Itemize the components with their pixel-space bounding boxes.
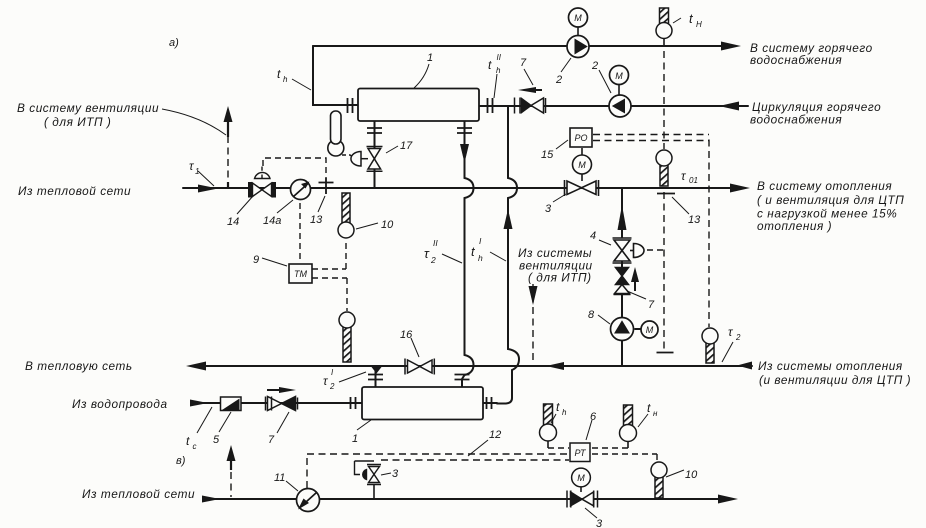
arrow: vent tap up — [224, 106, 233, 122]
wire: dashed PT to tn sensor — [592, 447, 628, 449]
svg-text:а): а) — [169, 37, 179, 49]
arrow: down on vent system dashed inlet — [529, 286, 538, 305]
svg-text:М: М — [615, 71, 623, 81]
wire: dashed link valve3 bracket to PT — [381, 459, 569, 461]
svg-text:М: М — [574, 13, 582, 23]
svg-text:8: 8 — [588, 309, 595, 321]
leader: 14a to flow sensor — [277, 200, 293, 213]
valve 17 with actuator — [351, 147, 383, 172]
orifice 13 on supply line — [319, 178, 334, 194]
leader: tau2-II to riser — [442, 254, 462, 263]
valve 3 small with actuator and bracket bottom scheme — [355, 461, 382, 485]
svg-text:В тепловую сеть: В тепловую сеть — [25, 359, 133, 373]
svg-text:2: 2 — [329, 382, 335, 391]
svg-text:РТ: РТ — [575, 448, 587, 458]
wire: dashed vent system inlet with arrow — [532, 284, 534, 362]
arrow: flow mark above check valve 7 circulation — [518, 87, 536, 93]
leader: th-I to riser — [490, 252, 506, 261]
thermometer sensor on return line for heat meter — [339, 312, 355, 362]
leader: 10 bottom to thermometer — [666, 470, 684, 477]
arrow: heating supply start right — [198, 185, 218, 193]
leader: tau1 to supply line — [198, 171, 214, 186]
arrow: down on riser tau2-II — [460, 144, 469, 163]
svg-text:( для ИТП ): ( для ИТП ) — [44, 115, 111, 129]
wire: dashed impulse PO to tau2 sensor — [708, 140, 710, 328]
svg-text:7: 7 — [268, 434, 275, 446]
wire: heater2 right port stub — [483, 402, 497, 404]
wire: riser from top line to heater 1 left port — [313, 46, 358, 105]
svg-text:10: 10 — [685, 469, 698, 481]
svg-text:РО: РО — [574, 133, 587, 143]
thermometer 10 bottom scheme — [651, 462, 667, 498]
pump 2 on circulation with motor — [609, 66, 631, 118]
wire: dashed link pump11 to PT regulator line 12 — [307, 454, 569, 488]
wire: heating return line to network — [197, 365, 752, 367]
wire: dashed PT to thermometer 10 stub — [592, 454, 657, 461]
svg-text:водоснабжения: водоснабжения — [750, 53, 842, 67]
instrument box TM heat meter 9 — [289, 264, 312, 283]
thermometer tn sensor bottom scheme — [620, 405, 637, 442]
leader: 17 to valve — [386, 146, 398, 153]
wire: pump8 motor link — [635, 328, 641, 330]
wire: riser tau2-II from heater1 to heater2 with hops — [462, 121, 474, 387]
svg-text:в): в) — [176, 455, 186, 467]
svg-text:3: 3 — [545, 203, 552, 215]
wire: cold water line — [197, 402, 362, 404]
thermometer tau2 on return line — [702, 328, 718, 363]
svg-text:16: 16 — [400, 329, 413, 341]
leader: 7 to check valve branch — [627, 291, 646, 299]
wire: branch with pump 8 from supply to return — [621, 188, 623, 366]
wire: riser th-I from heater2 to circulation with hops — [497, 106, 519, 404]
leader: 4 to valve — [599, 240, 611, 245]
svg-text:Из тепловой сети: Из тепловой сети — [18, 184, 131, 198]
flange: heater2 left port — [351, 397, 356, 409]
leader: 3 to valve heating — [553, 194, 566, 202]
leader: th to riser — [292, 79, 311, 90]
pump 8 with motor — [611, 318, 659, 341]
arrow: DHW supply line end right — [721, 42, 741, 51]
svg-text:h: h — [478, 253, 483, 263]
wire: bottom scheme line from heating network — [205, 498, 722, 500]
wire: DHW circulation line — [479, 105, 748, 107]
sensor tap bar 13 on supply line right — [657, 193, 675, 195]
pump 11 circulation pump bottom scheme — [297, 489, 320, 512]
leader: tau2-I to stub — [339, 372, 366, 382]
leader: tau2 to return line — [722, 342, 733, 362]
arrow: return line right end pointing left — [737, 362, 752, 370]
svg-text:Из водопровода: Из водопровода — [72, 397, 168, 411]
svg-text:4: 4 — [590, 230, 596, 242]
svg-text:отопления ): отопления ) — [757, 219, 832, 233]
svg-text:( и вентиляция для ЦТП: ( и вентиляция для ЦТП — [757, 193, 904, 207]
wire: riser heater1 left drain with valve 17 — [374, 121, 376, 188]
heat exchanger 1 (upper stage II) — [358, 89, 479, 122]
flange: tau2-I junction bars — [368, 375, 383, 380]
svg-text:(и вентиляции для ЦТП ): (и вентиляции для ЦТП ) — [759, 373, 911, 387]
leader: 13 to orifice — [318, 196, 325, 212]
svg-text:01: 01 — [689, 176, 698, 185]
svg-text:13: 13 — [310, 214, 323, 226]
wire: circulation pump motor stem — [618, 85, 620, 95]
leader: 9 to TM box — [262, 258, 287, 266]
flow sensor 14a — [291, 180, 311, 200]
valve 4 pressure regulator with actuator — [613, 238, 645, 263]
flange: heater1 bottom left stub — [367, 128, 382, 133]
svg-text:2: 2 — [591, 60, 598, 72]
heat exchanger 1 (lower stage I) — [362, 387, 483, 420]
svg-text:М: М — [577, 473, 585, 483]
svg-text:1: 1 — [427, 52, 433, 64]
instrument box PT temperature regulator 6 — [570, 443, 590, 462]
leader: 7 to check valve circulation — [524, 69, 533, 85]
leader: 7 to water check valve — [277, 412, 289, 433]
pump 2 on DHW supply with motor — [567, 8, 589, 58]
svg-text:c: c — [193, 442, 197, 451]
svg-text:Из тепловой сети: Из тепловой сети — [82, 487, 195, 501]
leader: 14 to valve — [237, 196, 253, 214]
leader: 5 to filter — [219, 412, 231, 432]
arrow: water line start right — [190, 400, 208, 407]
svg-text:2: 2 — [735, 333, 741, 342]
wire: dashed impulse tH to PO and down to pressure tap — [663, 51, 665, 352]
svg-text:14: 14 — [227, 216, 239, 228]
svg-text:7: 7 — [520, 57, 527, 69]
wire: tH thermometer stub — [663, 37, 665, 46]
leader: 3 to bottom valve — [585, 508, 597, 518]
arrow: up on riser th-I — [504, 209, 513, 229]
svg-text:II: II — [497, 53, 502, 62]
arrow: bottom tap up — [227, 445, 236, 461]
wire: dashed heat meter links from flow sensor and thermometers — [300, 203, 347, 311]
svg-text:1: 1 — [195, 167, 199, 176]
svg-text:h: h — [562, 408, 567, 417]
wire: dashed flow controller loop valve14 to orifice13 — [263, 158, 326, 178]
wire: dashed bottom scheme tap riser — [230, 472, 232, 497]
wire: dashed branch valve4 actuator — [647, 249, 664, 251]
svg-text:водоснабжения: водоснабжения — [750, 113, 842, 127]
leader: 10 to thermometer — [356, 223, 378, 229]
pressure tap T-mark under dashed impulse — [657, 352, 674, 354]
svg-text:14а: 14а — [263, 215, 281, 227]
svg-text:11: 11 — [274, 472, 285, 484]
svg-text:h: h — [496, 66, 501, 75]
junction wedge at tau2-I tee — [372, 367, 382, 374]
wire: dashed thermo bulb to valve17 actuator — [342, 155, 353, 157]
svg-text:7: 7 — [648, 299, 655, 311]
wire: dashed vent tap riser upper — [227, 136, 229, 183]
leader: th bottom label — [551, 414, 556, 423]
svg-text:3: 3 — [596, 518, 603, 528]
check valve 7 on pump8 branch — [614, 268, 631, 295]
svg-text:6: 6 — [590, 411, 597, 423]
control valve 3 bottom with motor — [567, 468, 598, 507]
flange: heater2 right port — [487, 397, 492, 409]
svg-text:Н: Н — [696, 20, 702, 29]
svg-text:ТМ: ТМ — [294, 269, 308, 279]
svg-text:10: 10 — [381, 219, 394, 231]
svg-text:( для ИТП): ( для ИТП) — [528, 271, 592, 285]
control valve 3 heating with motor and PO regulator 15 — [565, 128, 599, 196]
leader: 11 to pump — [286, 481, 298, 491]
svg-text:М: М — [578, 160, 586, 170]
valve 16 on return line — [405, 359, 434, 375]
wire: heating supply line from network — [183, 187, 733, 189]
arrow: circulation line pointing left — [719, 102, 739, 111]
svg-text:h: h — [283, 75, 288, 84]
arrow: up on pump8 branch — [618, 205, 627, 230]
leader: 16 to valve — [411, 338, 419, 357]
valve 14 with regulator dome — [248, 167, 276, 198]
wire: dashed double line from PO regulator — [593, 135, 709, 141]
leader: 8 to pump — [598, 315, 610, 324]
leader: label 1 to heater1 — [414, 64, 429, 88]
svg-text:9: 9 — [253, 254, 259, 266]
wire: valve3 bottom motor stem — [580, 487, 582, 492]
leader: 13 right to tap bar — [672, 197, 689, 214]
flange: heater1 bottom right stub — [457, 128, 472, 133]
wire: DHW supply top line — [313, 45, 725, 47]
svg-text:1: 1 — [352, 433, 358, 445]
filter 5 — [221, 397, 242, 411]
svg-text:3: 3 — [392, 468, 399, 480]
arrow: return line left end — [186, 362, 206, 371]
leader: tc to water line — [197, 407, 212, 433]
svg-text:В систему вентиляции: В систему вентиляции — [17, 101, 159, 115]
regulator thermo bulb for valve 17 — [328, 111, 344, 156]
arrow: bottom line start right — [202, 496, 220, 503]
svg-text:17: 17 — [400, 140, 413, 152]
svg-text:М: М — [646, 325, 654, 335]
arrow: heating supply end right — [730, 184, 750, 193]
svg-text:15: 15 — [541, 149, 554, 161]
svg-text:2: 2 — [430, 255, 436, 265]
svg-text:В систему отопления: В систему отопления — [757, 179, 892, 193]
svg-text:5: 5 — [213, 434, 220, 446]
leader: 3 to small valve — [381, 473, 391, 475]
check valve 7 on circulation line — [515, 98, 546, 114]
leader: tn bottom label — [638, 414, 648, 427]
svg-text:Из системы отопления: Из системы отопления — [758, 359, 903, 373]
wire: dashed th sensor to PT — [548, 447, 569, 449]
leader: label 1 to heater2 — [357, 420, 371, 430]
arrow: return line middle pointing left — [546, 362, 564, 370]
svg-text:н: н — [653, 409, 658, 418]
svg-text:13: 13 — [688, 214, 701, 226]
thermometer tH on DHW supply — [656, 8, 672, 39]
flange: tau2-II stub to heater2 — [455, 375, 470, 380]
check valve 7 on water line — [266, 397, 298, 411]
leader: 15 to PO box — [556, 140, 568, 149]
svg-text:2: 2 — [555, 74, 562, 86]
leader: th-II to port — [494, 74, 497, 98]
wire: valve3 small stem to line — [373, 485, 375, 499]
leader: 2 to pump top — [561, 58, 571, 72]
leader: 12 to dashed line — [468, 440, 488, 456]
wire: tn sensor stub — [627, 441, 629, 448]
leader: 6 to PT box — [586, 420, 592, 440]
arrow: flow mark above check valve 7 water — [279, 387, 296, 393]
arrow: bottom line end right — [718, 495, 738, 504]
wire: tau2-I stub heater2 to return line — [375, 366, 377, 387]
svg-text:12: 12 — [489, 429, 501, 441]
thermometer tau01 on heating supply — [656, 150, 672, 186]
wire: th sensor stub — [547, 441, 549, 448]
svg-text:II: II — [433, 238, 438, 248]
arrow: up beside check valve 7 branch — [631, 267, 639, 282]
thermometer 10 on heating supply line — [338, 193, 354, 238]
wire: pump2 top motor stem — [577, 27, 579, 36]
thermometer th sensor bottom scheme — [540, 404, 557, 441]
leader: 2 to circulation pump — [599, 70, 611, 93]
flange: heater1 right port — [488, 98, 493, 113]
flange: heater1 left port — [348, 98, 353, 113]
leader: vent system text to dashed riser — [162, 109, 226, 135]
wire: PO to valve3 actuator stem — [581, 148, 583, 181]
leader: tH label — [673, 18, 681, 23]
